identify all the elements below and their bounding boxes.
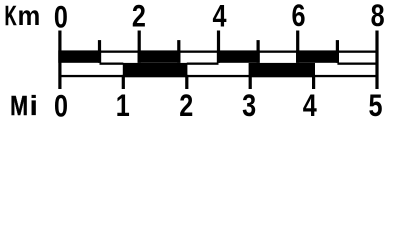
left end tick km0/mi0 (58, 31, 61, 90)
km bar black segment 4-5 (217, 50, 260, 62)
tick mi1 (122, 75, 125, 89)
tick mi2 (185, 75, 188, 89)
svg-text:4: 4 (212, 0, 226, 34)
svg-text:m: m (18, 0, 41, 31)
mi bar black segment 3-4 (249, 63, 315, 77)
svg-text:6: 6 (291, 0, 305, 34)
tick km4 tall (217, 31, 220, 63)
svg-text:2: 2 (132, 0, 146, 34)
bar middle line segment 3 (337, 63, 377, 65)
km bar black segment 6-7 (296, 50, 339, 62)
svg-text:0: 0 (54, 89, 68, 124)
right end tick km8/mi5 (375, 31, 378, 90)
mi bar black segment 1-2 (123, 63, 188, 77)
svg-text:5: 5 (368, 89, 382, 124)
tick km6 tall (296, 31, 299, 63)
bar bottom outline (60, 75, 377, 77)
svg-text:M: M (10, 92, 28, 122)
tick km2 tall (138, 31, 141, 63)
svg-text:8: 8 (371, 0, 385, 34)
bar middle line segment 2 (187, 63, 219, 65)
svg-text:3: 3 (242, 89, 256, 124)
svg-text:0: 0 (54, 0, 68, 35)
svg-text:i: i (30, 90, 38, 121)
km bar black segment 2-3 (138, 50, 181, 62)
tick km7 short (336, 40, 339, 63)
tick km5 short (257, 40, 260, 63)
svg-text:2: 2 (179, 89, 193, 124)
svg-text:4: 4 (303, 89, 317, 124)
svg-text:K: K (5, 0, 17, 31)
tick km3 short (177, 40, 180, 63)
bar top outline (60, 51, 377, 53)
km bar black segment 0-1 (58, 50, 101, 62)
bar middle line segment 1 (100, 63, 124, 65)
tick km1 short (98, 40, 101, 63)
tick mi3 (249, 75, 252, 89)
tick mi4 (312, 75, 315, 89)
svg-text:1: 1 (116, 89, 130, 124)
